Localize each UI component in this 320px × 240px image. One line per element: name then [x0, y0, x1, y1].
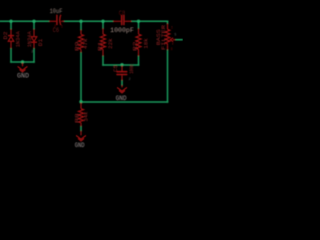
svg-text:2: 2 [31, 50, 33, 54]
svg-text:R9: R9 [75, 42, 81, 52]
svg-text:S: S [174, 32, 176, 36]
svg-text:1N34A: 1N34A [16, 30, 22, 47]
svg-text:1: 1 [61, 25, 63, 29]
svg-text:1000pF: 1000pF [110, 27, 134, 34]
svg-text:100n: 100n [129, 65, 135, 74]
svg-text:1N34A: 1N34A [27, 30, 33, 47]
svg-text:R2: R2 [133, 42, 139, 52]
svg-text:22k: 22k [108, 38, 114, 49]
svg-text:C8: C8 [119, 10, 126, 18]
svg-text:GND: GND [75, 142, 85, 149]
svg-text:GND: GND [116, 95, 127, 102]
svg-text:10uF: 10uF [50, 8, 63, 15]
svg-text:2: 2 [172, 43, 174, 47]
svg-text:2: 2 [54, 25, 56, 29]
svg-text:FILTER: FILTER [161, 24, 167, 50]
svg-text:D2: D2 [3, 32, 9, 40]
svg-text:1: 1 [171, 26, 173, 30]
svg-text:R8: R8 [75, 113, 81, 123]
svg-text:34k: 34k [84, 112, 90, 122]
svg-text:2: 2 [129, 77, 131, 81]
svg-text:GND: GND [17, 72, 29, 79]
svg-text:R1: R1 [97, 42, 103, 52]
svg-text:D1: D1 [38, 39, 44, 47]
svg-text:47k: 47k [83, 39, 89, 50]
svg-text:3: 3 [171, 48, 173, 52]
svg-text:18k: 18k [144, 38, 150, 49]
svg-text:C5: C5 [113, 65, 119, 72]
